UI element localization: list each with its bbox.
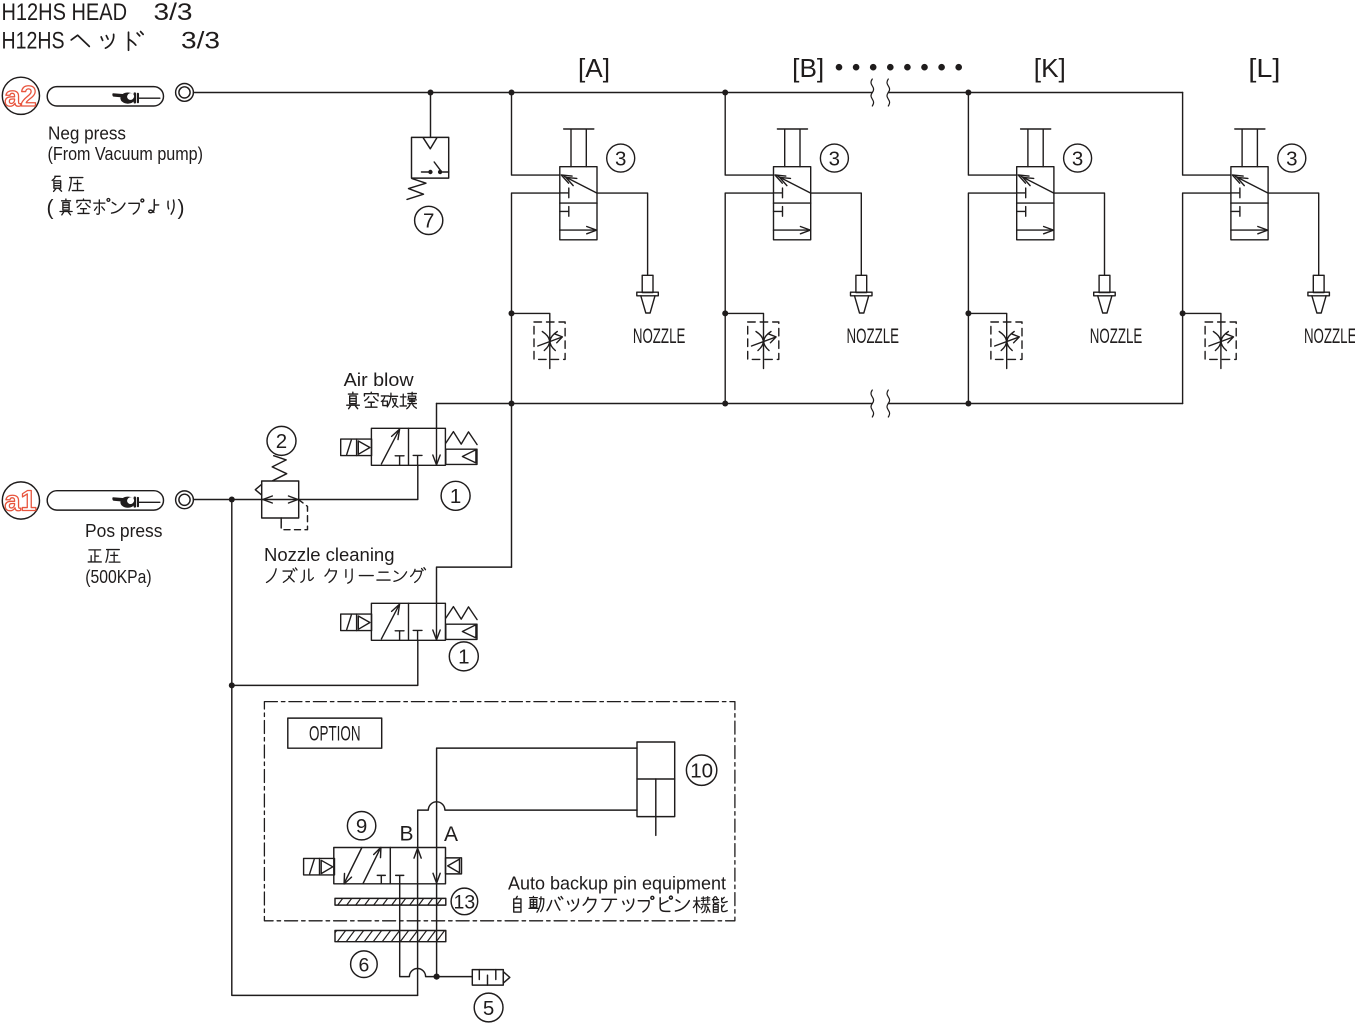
junction dots pos bus xyxy=(509,401,972,407)
svg-text:(500KPa): (500KPa) xyxy=(85,567,151,587)
wire a1 to regulator xyxy=(194,499,262,501)
svg-text:2: 2 xyxy=(276,430,287,453)
svg-text:13: 13 xyxy=(454,891,476,913)
port a1 double circle xyxy=(176,491,194,509)
svg-text:): ) xyxy=(178,197,185,220)
down arrow (A->exhaust) xyxy=(436,848,438,883)
wire P supply riser through plates xyxy=(417,884,419,996)
svg-text:3/3: 3/3 xyxy=(181,28,220,55)
svg-text:Auto backup pin equipment: Auto backup pin equipment xyxy=(508,873,726,893)
wire nozzle-clean supply xyxy=(232,640,418,685)
node a2 marker circle xyxy=(2,77,39,114)
a2 hand pill xyxy=(47,87,163,106)
junction dot exhaust xyxy=(434,974,440,980)
neg press bus xyxy=(194,92,1183,94)
junction dots neg bus xyxy=(428,90,972,96)
circle tag 10 xyxy=(686,755,716,785)
wire air blow output to pos bus xyxy=(436,404,438,429)
svg-text:1: 1 xyxy=(458,646,469,669)
svg-text:H12HS HEAD: H12HS HEAD xyxy=(2,0,128,26)
svg-text:A: A xyxy=(444,823,458,846)
blocked T left square xyxy=(377,875,385,883)
circle tag 5 xyxy=(474,993,503,1022)
svg-text:3/3: 3/3 xyxy=(154,0,193,26)
up arrow (P->B) xyxy=(417,849,419,884)
section [K] xyxy=(968,93,1142,404)
circle tag 6 xyxy=(351,951,378,978)
bus break xyxy=(871,79,874,106)
svg-text:7: 7 xyxy=(423,210,434,233)
wire A exhaust drop xyxy=(436,884,438,977)
circle tag 7 xyxy=(415,206,443,234)
svg-text:6: 6 xyxy=(358,954,369,976)
circle tag 13 xyxy=(451,888,478,915)
node a1 marker circle xyxy=(2,482,39,519)
svg-text:[L]: [L] xyxy=(1248,53,1280,83)
section [L] xyxy=(1183,93,1355,404)
air blow valve 1 xyxy=(341,428,477,465)
wire A port to cylinder cap side xyxy=(437,748,637,847)
regulator 2 xyxy=(255,456,307,530)
svg-text:[K]: [K] xyxy=(1034,53,1066,83)
dotted continuation row xyxy=(836,64,962,71)
junction dot a1 bus xyxy=(229,497,235,503)
svg-text:10: 10 xyxy=(690,760,713,783)
nozzle cleaning valve 1 xyxy=(341,603,477,640)
valve 9 (4/2) xyxy=(304,847,462,884)
svg-text:Neg press: Neg press xyxy=(48,123,126,143)
circle tag 2 xyxy=(267,426,296,455)
svg-text:[A]: [A] xyxy=(578,53,610,83)
svg-text:Nozzle cleaning: Nozzle cleaning xyxy=(264,545,395,565)
backup pin plate 6 (hatched) xyxy=(335,931,446,942)
section A riser extension xyxy=(511,404,513,568)
wire B port to cylinder rod side (with hop) xyxy=(418,802,637,848)
cylinder 10 xyxy=(637,742,675,835)
pilot return box right xyxy=(446,858,462,874)
OPTION label box xyxy=(288,718,382,748)
svg-text:H12HS: H12HS xyxy=(2,28,65,55)
svg-text:B: B xyxy=(399,823,413,846)
wire nozzle-clean output to section A riser xyxy=(437,567,512,603)
circle tag 1 (air blow) xyxy=(441,481,470,510)
pressure switch 7 xyxy=(407,137,449,199)
svg-text:9: 9 xyxy=(356,815,367,838)
svg-text:OPTION: OPTION xyxy=(309,723,361,746)
svg-text:Pos press: Pos press xyxy=(85,521,163,541)
pos press bus xyxy=(437,403,1183,405)
crossed-flow arrows xyxy=(345,848,362,882)
wire regulator to air-blow valve supply xyxy=(299,465,418,499)
blocked T right square xyxy=(396,875,404,883)
svg-text:a1: a1 xyxy=(4,486,36,518)
a1 vertical bus down-left xyxy=(232,500,418,996)
OPTION dash-dot border xyxy=(264,702,735,921)
backup pin plate 13 (hatched) xyxy=(335,898,446,905)
junction dots restrictor tees xyxy=(509,310,1186,316)
svg-text:5: 5 xyxy=(483,997,494,1020)
section [B] xyxy=(725,93,899,404)
section [A] xyxy=(512,93,686,404)
port a2 double circle xyxy=(176,84,194,102)
circle tag 1 (nozzle cleaning) xyxy=(449,642,478,671)
svg-text:[B]: [B] xyxy=(792,53,824,83)
svg-text:1: 1 xyxy=(450,485,461,508)
pressure switch 7 drop wire xyxy=(430,93,432,138)
circle tag 9 xyxy=(347,812,375,840)
silencer 5 xyxy=(472,970,510,986)
svg-text:(: ( xyxy=(47,197,54,220)
a1 hand pill xyxy=(47,491,163,510)
wire blocked-exhaust to junction (with hop) xyxy=(400,884,473,977)
svg-text:a2: a2 xyxy=(4,81,36,113)
svg-text:Air blow: Air blow xyxy=(344,370,415,390)
svg-text:(From Vacuum pump): (From Vacuum pump) xyxy=(48,144,204,164)
